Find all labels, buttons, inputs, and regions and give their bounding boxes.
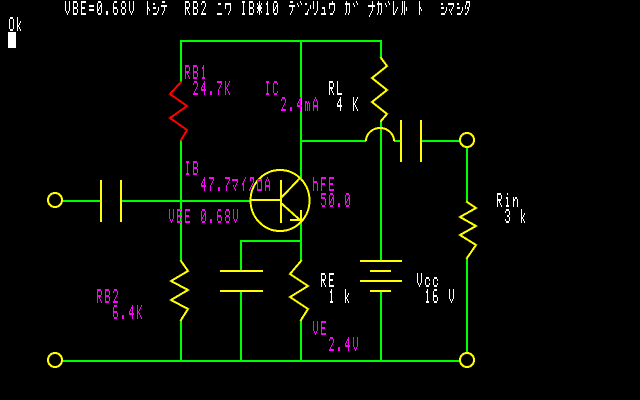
wire crossover jump arc xyxy=(366,128,394,141)
wire crossover to C2 left plate xyxy=(394,140,400,142)
input terminal xyxy=(48,193,62,207)
battery Vcc plate 3 long xyxy=(360,280,402,282)
wire collector vertical, rail to transistor xyxy=(300,40,302,178)
wire emitter node to C3 branch, y=240 xyxy=(240,240,302,242)
label VBE 0.68V xyxy=(169,209,238,223)
value label 2.4V xyxy=(329,337,358,351)
label RL xyxy=(329,81,342,95)
status line text "VBE=0.68V ..." xyxy=(65,1,470,17)
resistor RB1 zigzag (red) xyxy=(170,82,187,140)
transistor Q1 base bar xyxy=(280,180,282,223)
value label 2.4mA xyxy=(281,97,318,111)
text cursor block xyxy=(8,32,16,48)
wire emitter vertical, transistor to RE top xyxy=(300,222,302,261)
wire bottom ground rail xyxy=(62,360,460,362)
label IB xyxy=(186,161,198,175)
resistor RE zigzag xyxy=(290,261,308,320)
value label 6.4K xyxy=(113,305,142,319)
wire input terminal to C1 xyxy=(62,200,100,202)
wire RE bottom to rail xyxy=(300,320,302,360)
capacitor C1 right plate xyxy=(120,180,122,222)
wire RL top, rail to RL xyxy=(380,40,382,58)
battery Vcc plate 4 short xyxy=(370,290,391,292)
prompt text "Ok" xyxy=(9,17,21,31)
wire C3 branch vertical top xyxy=(240,240,242,270)
wire left vertical, RB1 bottom through base node to RB2 top xyxy=(180,140,182,261)
label Rin xyxy=(497,193,518,207)
value label 24.7K xyxy=(193,81,230,95)
resistor RB2 zigzag xyxy=(171,261,188,320)
label Vcc xyxy=(417,273,438,287)
resistor Rin zigzag xyxy=(460,202,476,258)
battery Vcc plate 1 long xyxy=(360,260,402,262)
wire RL bottom to Vcc battery top xyxy=(380,121,382,260)
value label 1 k xyxy=(330,289,349,303)
wire output terminal to Rin top xyxy=(466,147,468,202)
value label 47.7 microA xyxy=(201,177,270,191)
value label 3 k xyxy=(505,209,525,223)
capacitor C2 left plate xyxy=(400,120,402,162)
value label 50.0 xyxy=(321,193,350,207)
wire C3 branch vertical bottom to rail xyxy=(240,292,242,360)
capacitor C1 left plate xyxy=(100,180,102,222)
value label 4 K xyxy=(337,97,358,111)
label VE xyxy=(313,321,326,335)
label IC xyxy=(266,81,278,95)
transistor Q1 emitter arrow vertical wing xyxy=(300,210,302,221)
transistor Q1 emitter arrow horizontal wing xyxy=(290,219,302,221)
battery Vcc plate 2 short xyxy=(370,270,391,272)
capacitor C3 bottom plate xyxy=(220,290,263,292)
resistor RL zigzag xyxy=(372,58,387,121)
label hFE xyxy=(313,177,334,191)
transistor Q1 circle xyxy=(251,170,310,231)
input ground terminal xyxy=(48,353,62,367)
value label 16 V xyxy=(426,289,454,303)
wire C1 to transistor base, node at x=180 xyxy=(122,200,250,202)
output ground terminal xyxy=(460,353,474,367)
transistor Q1 base lead xyxy=(250,199,281,201)
wire C2 right plate to output terminal xyxy=(422,140,461,142)
wire left vertical, rail to RB1 top xyxy=(180,40,182,82)
label RB1 xyxy=(185,65,205,79)
label RE xyxy=(321,273,334,287)
wire collector node to crossover, y=140 xyxy=(300,140,366,142)
label RB2 xyxy=(97,289,118,303)
transistor Q1 emitter stroke xyxy=(281,203,300,220)
wire Rin bottom to output ground terminal xyxy=(466,258,468,354)
capacitor C2 right plate xyxy=(420,120,422,162)
output terminal xyxy=(460,133,474,147)
transistor Q1 collector stroke xyxy=(281,178,300,198)
wire top rail (RB1 top to RL top) xyxy=(180,40,382,42)
wire Vcc battery bottom to rail xyxy=(380,292,382,360)
wire left vertical, RB2 bottom to ground rail xyxy=(180,320,182,362)
capacitor C3 top plate xyxy=(220,270,263,272)
